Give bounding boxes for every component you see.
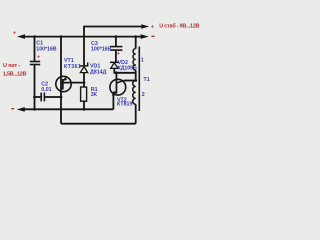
svg-text:+: + — [117, 51, 120, 57]
svg-text:+: + — [37, 55, 40, 61]
svg-text:T1: T1 — [144, 77, 150, 83]
wire top rail — [22, 36, 143, 38]
svg-text:0,01: 0,01 — [41, 87, 51, 93]
svg-text:+: + — [151, 24, 154, 30]
transistor VT2 — [110, 79, 126, 95]
svg-text:U стаб - 9В...12В: U стаб - 9В...12В — [159, 23, 199, 30]
wire mid minus rail — [24, 108, 114, 110]
svg-text:3К: 3К — [91, 92, 98, 98]
wire VD1 anode to R1 — [83, 73, 85, 87]
wire VD2 anode to transformer — [113, 69, 115, 73]
wire bottom rail — [61, 123, 136, 125]
red minus input — [11, 108, 14, 109]
svg-text:1: 1 — [141, 57, 144, 63]
input - arrow left — [17, 107, 25, 112]
transformer T1 winding 2 — [133, 81, 136, 105]
svg-text:VD1: VD1 — [90, 63, 100, 69]
svg-text:100*16В: 100*16В — [91, 46, 111, 52]
wire C3 top lead — [115, 37, 117, 46]
wire C1 bottom lead to minus rail — [34, 65, 36, 109]
wire R1 bottom lead — [83, 101, 85, 109]
svg-text:Д814Д: Д814Д — [90, 70, 107, 76]
wire C2 right to VT1 collector line — [45, 96, 61, 98]
wire VT1 emitter-collector vertical — [60, 37, 62, 124]
wire C1 top lead — [34, 37, 36, 61]
svg-text:+: + — [13, 31, 16, 37]
wire winding2 bottom lead — [135, 104, 137, 123]
transistor VT1 — [56, 76, 71, 91]
capacitor C3 plates — [110, 46, 122, 48]
input + arrow left — [17, 34, 25, 39]
wire +output line — [84, 26, 144, 28]
wire VT2 base lead — [115, 73, 117, 82]
transformer T1 winding 1 — [133, 49, 136, 71]
svg-text:КД105Б: КД105Б — [118, 65, 137, 71]
svg-text:2: 2 — [142, 92, 145, 98]
transformer T1 core — [138, 47, 140, 112]
wire VD1 vertical from +out corner — [83, 26, 85, 65]
wire winding1 bottom to node A — [135, 70, 137, 80]
wire VT1 base to VD1 node — [63, 82, 85, 84]
capacitor C1 plates — [30, 61, 40, 63]
capacitor C2 plates — [40, 93, 42, 102]
wire VT2 collector to winding 2 — [124, 80, 136, 82]
junction dots — [33, 35, 36, 38]
svg-text:КТ819: КТ819 — [117, 102, 132, 108]
resistor R1 — [81, 87, 87, 101]
wire C3 bottom lead to VD2 — [115, 51, 117, 63]
svg-text:1,5В...12В: 1,5В...12В — [3, 71, 27, 77]
wire C2 left — [35, 96, 41, 98]
circuit schematic: stabilized voltage converter — [0, 0, 200, 150]
svg-text:КТ361: КТ361 — [64, 64, 81, 70]
diode VD2 — [110, 62, 119, 69]
svg-text:100*16В: 100*16В — [36, 46, 56, 52]
zener diode VD1 — [80, 63, 89, 73]
output + arrow right — [141, 24, 149, 28]
red minus output — [152, 36, 155, 37]
wire winding1 top lead — [135, 37, 137, 49]
svg-text:U пит -: U пит - — [3, 63, 20, 69]
output - arrow right — [141, 34, 149, 39]
wire VT2 emitter lead — [112, 94, 114, 109]
